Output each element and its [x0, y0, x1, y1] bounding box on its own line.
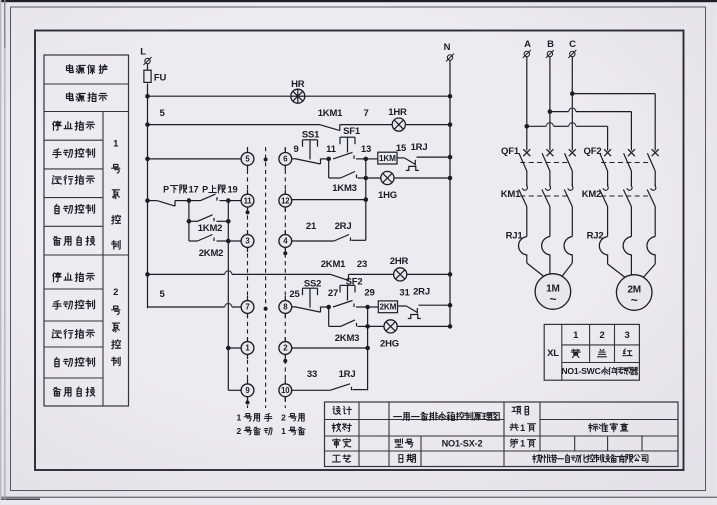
wire: seal vertical to selector [227, 201, 229, 391]
svg-text:N: N [444, 42, 451, 53]
L rail wire [147, 84, 149, 309]
selector contact 9 [247, 379, 249, 384]
wire: node29 to coil [368, 306, 379, 308]
svg-text:1: 1 [520, 439, 525, 449]
svg-text:7: 7 [363, 108, 368, 119]
svg-text:KM2: KM2 [582, 189, 601, 200]
svg-text:P: P [202, 184, 208, 194]
contactor coil 1KM [378, 152, 397, 164]
svg-text:1: 1 [237, 413, 242, 423]
node 19 [226, 198, 231, 203]
selector contact 7 [247, 296, 249, 301]
node L-2HR [145, 272, 150, 277]
selector contact 6 [284, 148, 286, 153]
wire: node17 vertical [188, 201, 190, 241]
svg-text:FU: FU [154, 72, 167, 83]
wire: SF1 to node 13 [356, 158, 366, 160]
node 29 [365, 305, 370, 310]
company name [533, 454, 542, 462]
svg-text:A: A [524, 39, 531, 50]
svg-text:2RJ: 2RJ [413, 287, 430, 298]
inner drawing frame [35, 31, 684, 471]
photo bottom edge [0, 497, 717, 498]
svg-text:9: 9 [293, 144, 298, 155]
wire: 2RJ to N [419, 304, 451, 306]
node 27 [326, 305, 331, 310]
svg-text:12: 12 [281, 196, 290, 205]
svg-text:1RJ: 1RJ [411, 142, 428, 153]
svg-text:23: 23 [357, 259, 367, 270]
wire A to QF2 [527, 125, 547, 127]
legend pump2: 0 [53, 272, 62, 281]
sensor terminal table XL [544, 324, 639, 380]
wire: L to selector 5 [148, 158, 242, 160]
selector contact 3 [247, 230, 249, 235]
wire: node13 to coil [366, 158, 378, 160]
svg-text:SS1: SS1 [302, 130, 320, 141]
svg-text:1HR: 1HR [388, 107, 407, 118]
selector contact 11 [247, 190, 249, 195]
selector position dots [264, 158, 268, 162]
seal contact 2KM3 [328, 307, 330, 326]
standard review cell [589, 423, 598, 431]
N rail wire [449, 60, 451, 326]
svg-text:HR: HR [291, 79, 305, 90]
legend pump1: 1 [53, 149, 62, 158]
node 1HG branch [364, 176, 369, 181]
node N-HR [448, 94, 453, 99]
svg-text:1KM3: 1KM3 [332, 183, 357, 194]
svg-text:21: 21 [306, 221, 317, 232]
svg-text:NO1-SX-2: NO1-SX-2 [442, 439, 483, 449]
legend pump2: 4 [53, 387, 60, 396]
wire: 1RJ to N [417, 156, 451, 158]
wire: SS1 to node 11 [321, 158, 329, 160]
interlock contact 2RJ-21 [292, 240, 335, 242]
svg-text:QF2: QF2 [584, 146, 602, 157]
wire: node29 vertical [367, 307, 369, 390]
svg-text:1KM: 1KM [379, 154, 396, 163]
svg-text:27: 27 [328, 288, 338, 299]
svg-text:XL: XL [547, 348, 559, 359]
legend pump1: 2 [52, 176, 61, 184]
wire: SS2 to node 27 [321, 306, 329, 308]
node N-2HG [448, 324, 453, 329]
node 2KM2-right [226, 239, 231, 244]
svg-text:2HG: 2HG [380, 338, 399, 349]
wire: to selector 1 [228, 347, 241, 349]
svg-text:19: 19 [228, 185, 238, 195]
svg-text:7: 7 [245, 303, 249, 312]
selector contact 5 [247, 148, 249, 153]
node 11 [326, 157, 331, 162]
svg-text:2RJ: 2RJ [335, 221, 352, 232]
svg-text:31: 31 [399, 288, 410, 299]
wire: 2HR indication line [148, 273, 225, 275]
svg-text:13: 13 [361, 144, 371, 155]
wire phase C [571, 57, 573, 151]
selector contact 4 [284, 230, 286, 235]
svg-text:2KM: 2KM [380, 303, 397, 312]
seal contact 1KM2 [187, 219, 192, 224]
svg-text:17: 17 [189, 185, 199, 195]
legend pump2: 3 [55, 357, 59, 366]
svg-text:2KM3: 2KM3 [335, 333, 360, 344]
photo top edge [0, 0, 717, 2]
svg-text:~: ~ [549, 292, 556, 306]
svg-text:1KM2: 1KM2 [198, 223, 223, 234]
wire: selector 2 to node29 vertical [292, 347, 368, 349]
project cell [512, 406, 521, 414]
node N-2HR [448, 272, 453, 277]
wire C to QF2 [572, 93, 655, 95]
svg-text:B: B [547, 39, 554, 50]
svg-text:2: 2 [281, 413, 286, 423]
svg-text:11: 11 [244, 196, 253, 205]
lamp 1HG [366, 177, 450, 179]
svg-text:L: L [140, 46, 146, 57]
wire: to selector 3 [228, 240, 241, 242]
selector contact 12 [284, 190, 286, 195]
wire: HR lamp line [148, 95, 451, 97]
node 13 [364, 157, 369, 162]
svg-text:NO1-SWC: NO1-SWC [561, 366, 600, 376]
svg-text:29: 29 [364, 288, 374, 299]
selector contact 8 [284, 296, 286, 301]
wire: selector 8 to SS2 [292, 306, 295, 308]
svg-text:2KM1: 2KM1 [321, 259, 346, 270]
node 2HG branch [365, 324, 370, 329]
legend: power protection row [66, 65, 73, 73]
fuse FU [147, 64, 149, 70]
lamp 2HG [368, 325, 450, 327]
node N-1HG [448, 176, 453, 181]
svg-text:1KM1: 1KM1 [318, 108, 343, 119]
selector linkage dashed col2 [284, 147, 286, 408]
svg-text:2: 2 [113, 287, 118, 298]
wire: 1HR indication line [148, 124, 321, 126]
wire: SF2 to node 29 [356, 306, 368, 308]
wire: node19 to selector 11 [228, 200, 241, 202]
svg-text:C: C [569, 39, 576, 50]
svg-text:1HG: 1HG [378, 190, 397, 201]
selector linkage dashed col1 [247, 147, 249, 408]
svg-text:25: 25 [289, 289, 300, 300]
motor 1M [526, 256, 528, 263]
node L-P [145, 198, 150, 203]
drawing title [394, 416, 402, 418]
node selector1 [226, 346, 231, 351]
wire: node13 vertical [365, 159, 367, 240]
svg-text:~: ~ [631, 293, 638, 307]
selector contact 2 [284, 337, 286, 342]
svg-text:2: 2 [237, 426, 242, 436]
node 17 [187, 198, 192, 203]
svg-text:2KM2: 2KM2 [199, 248, 224, 259]
page cell [510, 439, 517, 447]
legend pump1: 4 [53, 236, 60, 245]
wire: to selector 9 [228, 389, 241, 391]
svg-text:15: 15 [396, 143, 407, 154]
legend pump2: 1 [53, 300, 62, 309]
wire phase A [526, 57, 528, 151]
svg-text:10: 10 [281, 386, 290, 395]
title block frame [325, 402, 679, 467]
selector contact 1 [247, 337, 249, 342]
svg-text:3: 3 [624, 330, 629, 341]
legend: power indication row [66, 93, 73, 101]
svg-text:33: 33 [307, 369, 317, 380]
selector contact 10 [284, 379, 286, 384]
wire: selector 12 to node13 vertical [292, 199, 366, 201]
photo left edge [0, 0, 1, 500]
motor 2M [607, 256, 609, 264]
legend pump1: 0 [53, 121, 62, 130]
svg-text:QF1: QF1 [501, 146, 520, 157]
legend table frame [44, 55, 129, 406]
legend pump2: 2 [52, 330, 61, 338]
sensor wire colors [571, 349, 580, 357]
seal contact 1KM3 [328, 159, 330, 178]
wire B to QF2 [550, 111, 569, 113]
svg-text:P: P [163, 184, 169, 194]
seal contact 2KM2 [189, 240, 198, 242]
svg-text:1: 1 [281, 426, 286, 436]
wire: selector 6 to SS1 [292, 158, 295, 160]
selector linkage dashed mid [265, 147, 267, 408]
wire: L to selector 7 [148, 306, 225, 308]
svg-text:2HR: 2HR [390, 256, 409, 267]
pages cell [510, 424, 518, 431]
svg-text:1: 1 [520, 423, 525, 433]
svg-text:1RJ: 1RJ [339, 369, 356, 380]
svg-text:2: 2 [599, 330, 604, 341]
svg-text:SF1: SF1 [343, 126, 361, 137]
model row [395, 439, 403, 447]
svg-text:KM1: KM1 [501, 189, 521, 200]
legend pump1: 3 [55, 204, 59, 213]
contactor coil 2KM [378, 301, 397, 313]
interlock contact 1RJ-33 [292, 389, 331, 391]
title row labels [333, 406, 341, 414]
node N-2 [448, 122, 453, 127]
svg-text:11: 11 [326, 144, 337, 155]
wire phase B [549, 57, 551, 151]
node L-1 [145, 122, 150, 127]
node 1KM2-right [226, 219, 231, 224]
date row [399, 455, 403, 463]
